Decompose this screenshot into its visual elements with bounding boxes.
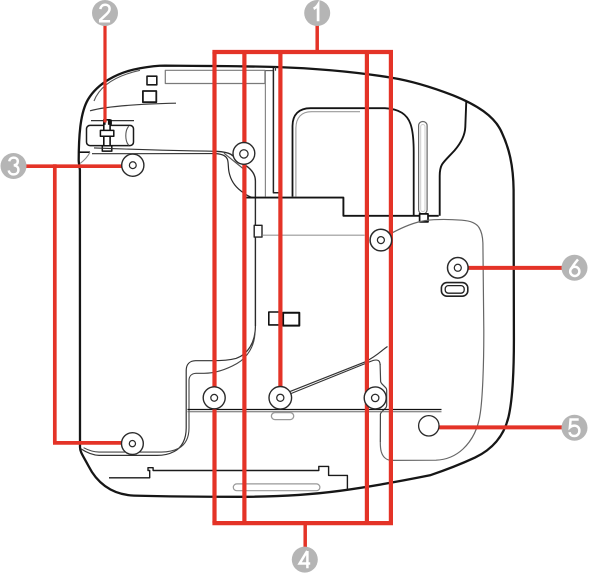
slot top connector <box>265 70 273 72</box>
double horizontal upper <box>188 409 442 411</box>
groove outer: arc, horizontal, channel, bottom <box>81 326 256 455</box>
wedge ramp parallel diagonal <box>224 153 246 170</box>
wedge lower S-curve <box>216 154 253 198</box>
screw S4 <box>364 387 386 409</box>
pin slot right edge with branch from top edge <box>440 101 467 216</box>
slot vertical dark <box>273 68 279 198</box>
callout 6 <box>562 255 588 281</box>
interface panel left edge with jog around screw S4 <box>380 364 387 442</box>
bottom pad <box>233 484 320 491</box>
callout 4 <box>292 547 318 573</box>
pin foot box <box>420 214 428 222</box>
diagonal ridge line 2 <box>287 360 380 395</box>
wedge ramp top edge joining groove vertical <box>216 151 255 326</box>
red vertical V4 <box>365 52 369 523</box>
front edge tick <box>275 67 277 71</box>
callout 1 stem <box>315 25 319 55</box>
pill below screw S6 inner <box>445 286 464 294</box>
red vertical V5 <box>389 52 393 523</box>
gray line mid <box>262 234 364 236</box>
swoosh curve <box>90 103 176 111</box>
mount hole (callout 5 target) <box>419 416 439 436</box>
small square upper <box>147 76 157 85</box>
double horizontal lower <box>188 411 442 413</box>
small square lower <box>143 91 156 102</box>
callout 6 line <box>459 266 563 270</box>
lever top tab left <box>103 120 106 125</box>
screw S1 <box>233 143 255 165</box>
slot vertical gray (vent edge continuation) <box>264 71 266 197</box>
callout 3 lower line to screw S8 <box>53 441 132 445</box>
center bracket open rect <box>269 312 279 325</box>
callout 4 stem <box>303 521 307 548</box>
lamp cover outline <box>293 108 414 216</box>
tab on groove vertical <box>254 225 262 237</box>
callout 1 <box>304 0 330 26</box>
lever crossbar <box>100 130 113 136</box>
screw S2 <box>269 387 292 410</box>
foot cylinder inner arc <box>126 126 129 145</box>
callout 2 <box>92 0 118 26</box>
red rect bottom horizontal <box>212 521 393 525</box>
lamp cover inner shadow line <box>296 112 360 197</box>
screw S5 <box>370 229 392 251</box>
callout 3 <box>1 153 27 179</box>
red rect top horizontal <box>212 50 393 54</box>
foot release lever bar <box>104 120 110 151</box>
pin inner highlight <box>421 125 425 212</box>
front foot body <box>87 125 134 145</box>
lamp cover bottom edge <box>246 198 439 216</box>
pill under screw S2 <box>271 413 293 420</box>
projector body outline <box>79 66 514 497</box>
diagonal ridge line 1 <box>288 347 388 393</box>
lever foot base <box>102 146 112 151</box>
inner top-left corner arc <box>94 70 140 101</box>
red vertical V3 (ends at screw S2) <box>278 52 282 392</box>
foot recess top line <box>91 120 134 122</box>
screw S7 <box>122 154 144 176</box>
groove inner: arc, horizontal, channel, bottom <box>84 333 255 452</box>
callout 5 line <box>430 425 563 429</box>
screw S6 <box>448 258 469 279</box>
callout 2 stem <box>103 25 106 123</box>
pill below screw S6 outer <box>441 283 467 297</box>
callout 3 vertical <box>53 164 57 443</box>
screw S3 <box>203 387 225 409</box>
security pin pill <box>419 122 428 215</box>
interface panel right and bottom <box>380 243 484 460</box>
center small rect <box>283 313 299 326</box>
callout 3 upper line to screw S7 <box>26 164 133 168</box>
interface panel top edge from screw S5 <box>391 219 483 243</box>
red vertical V1 <box>212 52 216 523</box>
lines under foot <box>94 148 216 151</box>
callout 5 <box>562 415 588 441</box>
screw S8 <box>121 433 143 455</box>
bottom step line <box>109 466 347 490</box>
red vertical V2 <box>242 52 246 523</box>
lever top tab right <box>108 120 112 125</box>
front vent rectangle <box>165 70 265 83</box>
